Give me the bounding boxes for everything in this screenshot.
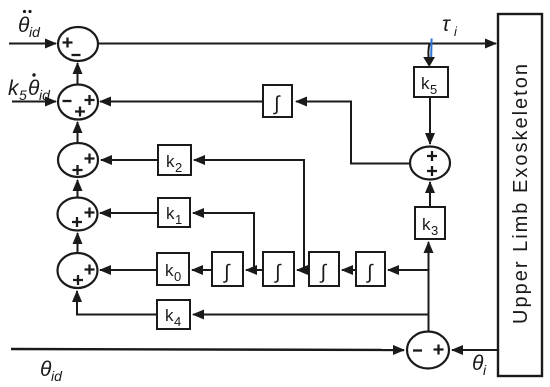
wire S4 to S3	[77, 180, 79, 197]
wire I3 to I2	[297, 269, 309, 271]
sum junction S5	[58, 253, 98, 288]
block upper limb exoskeleton	[498, 14, 542, 376]
svg-text:id: id	[29, 24, 41, 40]
wire error vertical to k3	[428, 242, 430, 331]
wire input k5thetadot to S2	[12, 101, 56, 103]
wire I2 to I1	[246, 269, 263, 271]
block k0	[157, 253, 189, 285]
wire tap to k1	[193, 213, 254, 270]
sum junction S3	[58, 143, 98, 177]
block k3	[415, 207, 445, 239]
svg-text:k: k	[165, 306, 174, 325]
wire k5 to S6	[429, 97, 431, 144]
integrator I3	[309, 252, 339, 286]
svg-text:id: id	[51, 368, 63, 384]
sum junction S4	[58, 198, 98, 231]
svg-text:3: 3	[431, 223, 438, 238]
wire k0 to S5	[100, 269, 157, 271]
wire I4 to I3	[342, 269, 356, 271]
wire k3 to S6	[429, 182, 431, 207]
sum junction S6	[410, 147, 450, 180]
wire error to I4	[388, 269, 428, 271]
block k4	[157, 300, 190, 329]
wire S5 to S4	[77, 233, 79, 253]
sum junction S1	[58, 27, 98, 61]
label theta-ddot-id	[18, 10, 41, 40]
wire tap to k2	[194, 160, 304, 270]
svg-text:k: k	[166, 204, 175, 223]
wire I5 to S2	[100, 101, 263, 103]
block k2	[158, 145, 191, 175]
integrator I4	[356, 252, 385, 286]
wire input thetaddot to S1	[9, 43, 56, 45]
svg-text:τ: τ	[442, 13, 451, 36]
wire S2 to S1	[77, 63, 79, 84]
wire I1 to k0	[192, 269, 212, 271]
label tau_i	[442, 13, 458, 39]
svg-text:4: 4	[174, 314, 181, 329]
wire k1 to S4	[100, 212, 158, 214]
wire S1 to exoskeleton (tau)	[98, 43, 496, 45]
label theta_id	[40, 358, 63, 384]
svg-text:Upper Limb Exoskeleton: Upper Limb Exoskeleton	[510, 62, 532, 324]
label k5-thetadot-id	[8, 73, 51, 103]
block k5	[414, 67, 448, 97]
integrator I1	[212, 252, 243, 286]
label theta_i	[472, 352, 487, 378]
svg-text:k: k	[421, 74, 430, 93]
svg-text:0: 0	[174, 269, 181, 284]
wire error to k4	[193, 314, 428, 316]
svg-text:k: k	[166, 152, 175, 171]
wire k2 to S3	[101, 159, 158, 161]
block k1	[158, 198, 190, 227]
integrator I2	[263, 252, 294, 286]
wire k4 to S5	[77, 291, 157, 315]
sum junction S7	[407, 332, 449, 369]
wire theta_id to S7	[11, 349, 404, 350]
svg-text:1: 1	[175, 212, 182, 227]
sum junction S2	[58, 85, 98, 120]
svg-text:2: 2	[175, 160, 182, 175]
svg-text:k: k	[422, 215, 431, 234]
svg-text:k: k	[165, 261, 174, 280]
blue connector mark	[430, 39, 432, 58]
wire S6 to I5	[296, 102, 410, 164]
wire tap tau to k5	[428, 44, 429, 57]
wire exoskeleton theta_i to S7	[452, 349, 498, 351]
svg-text:5: 5	[430, 82, 437, 97]
wire S3 to S2	[77, 122, 79, 143]
integrator I5 (top)	[263, 85, 292, 117]
